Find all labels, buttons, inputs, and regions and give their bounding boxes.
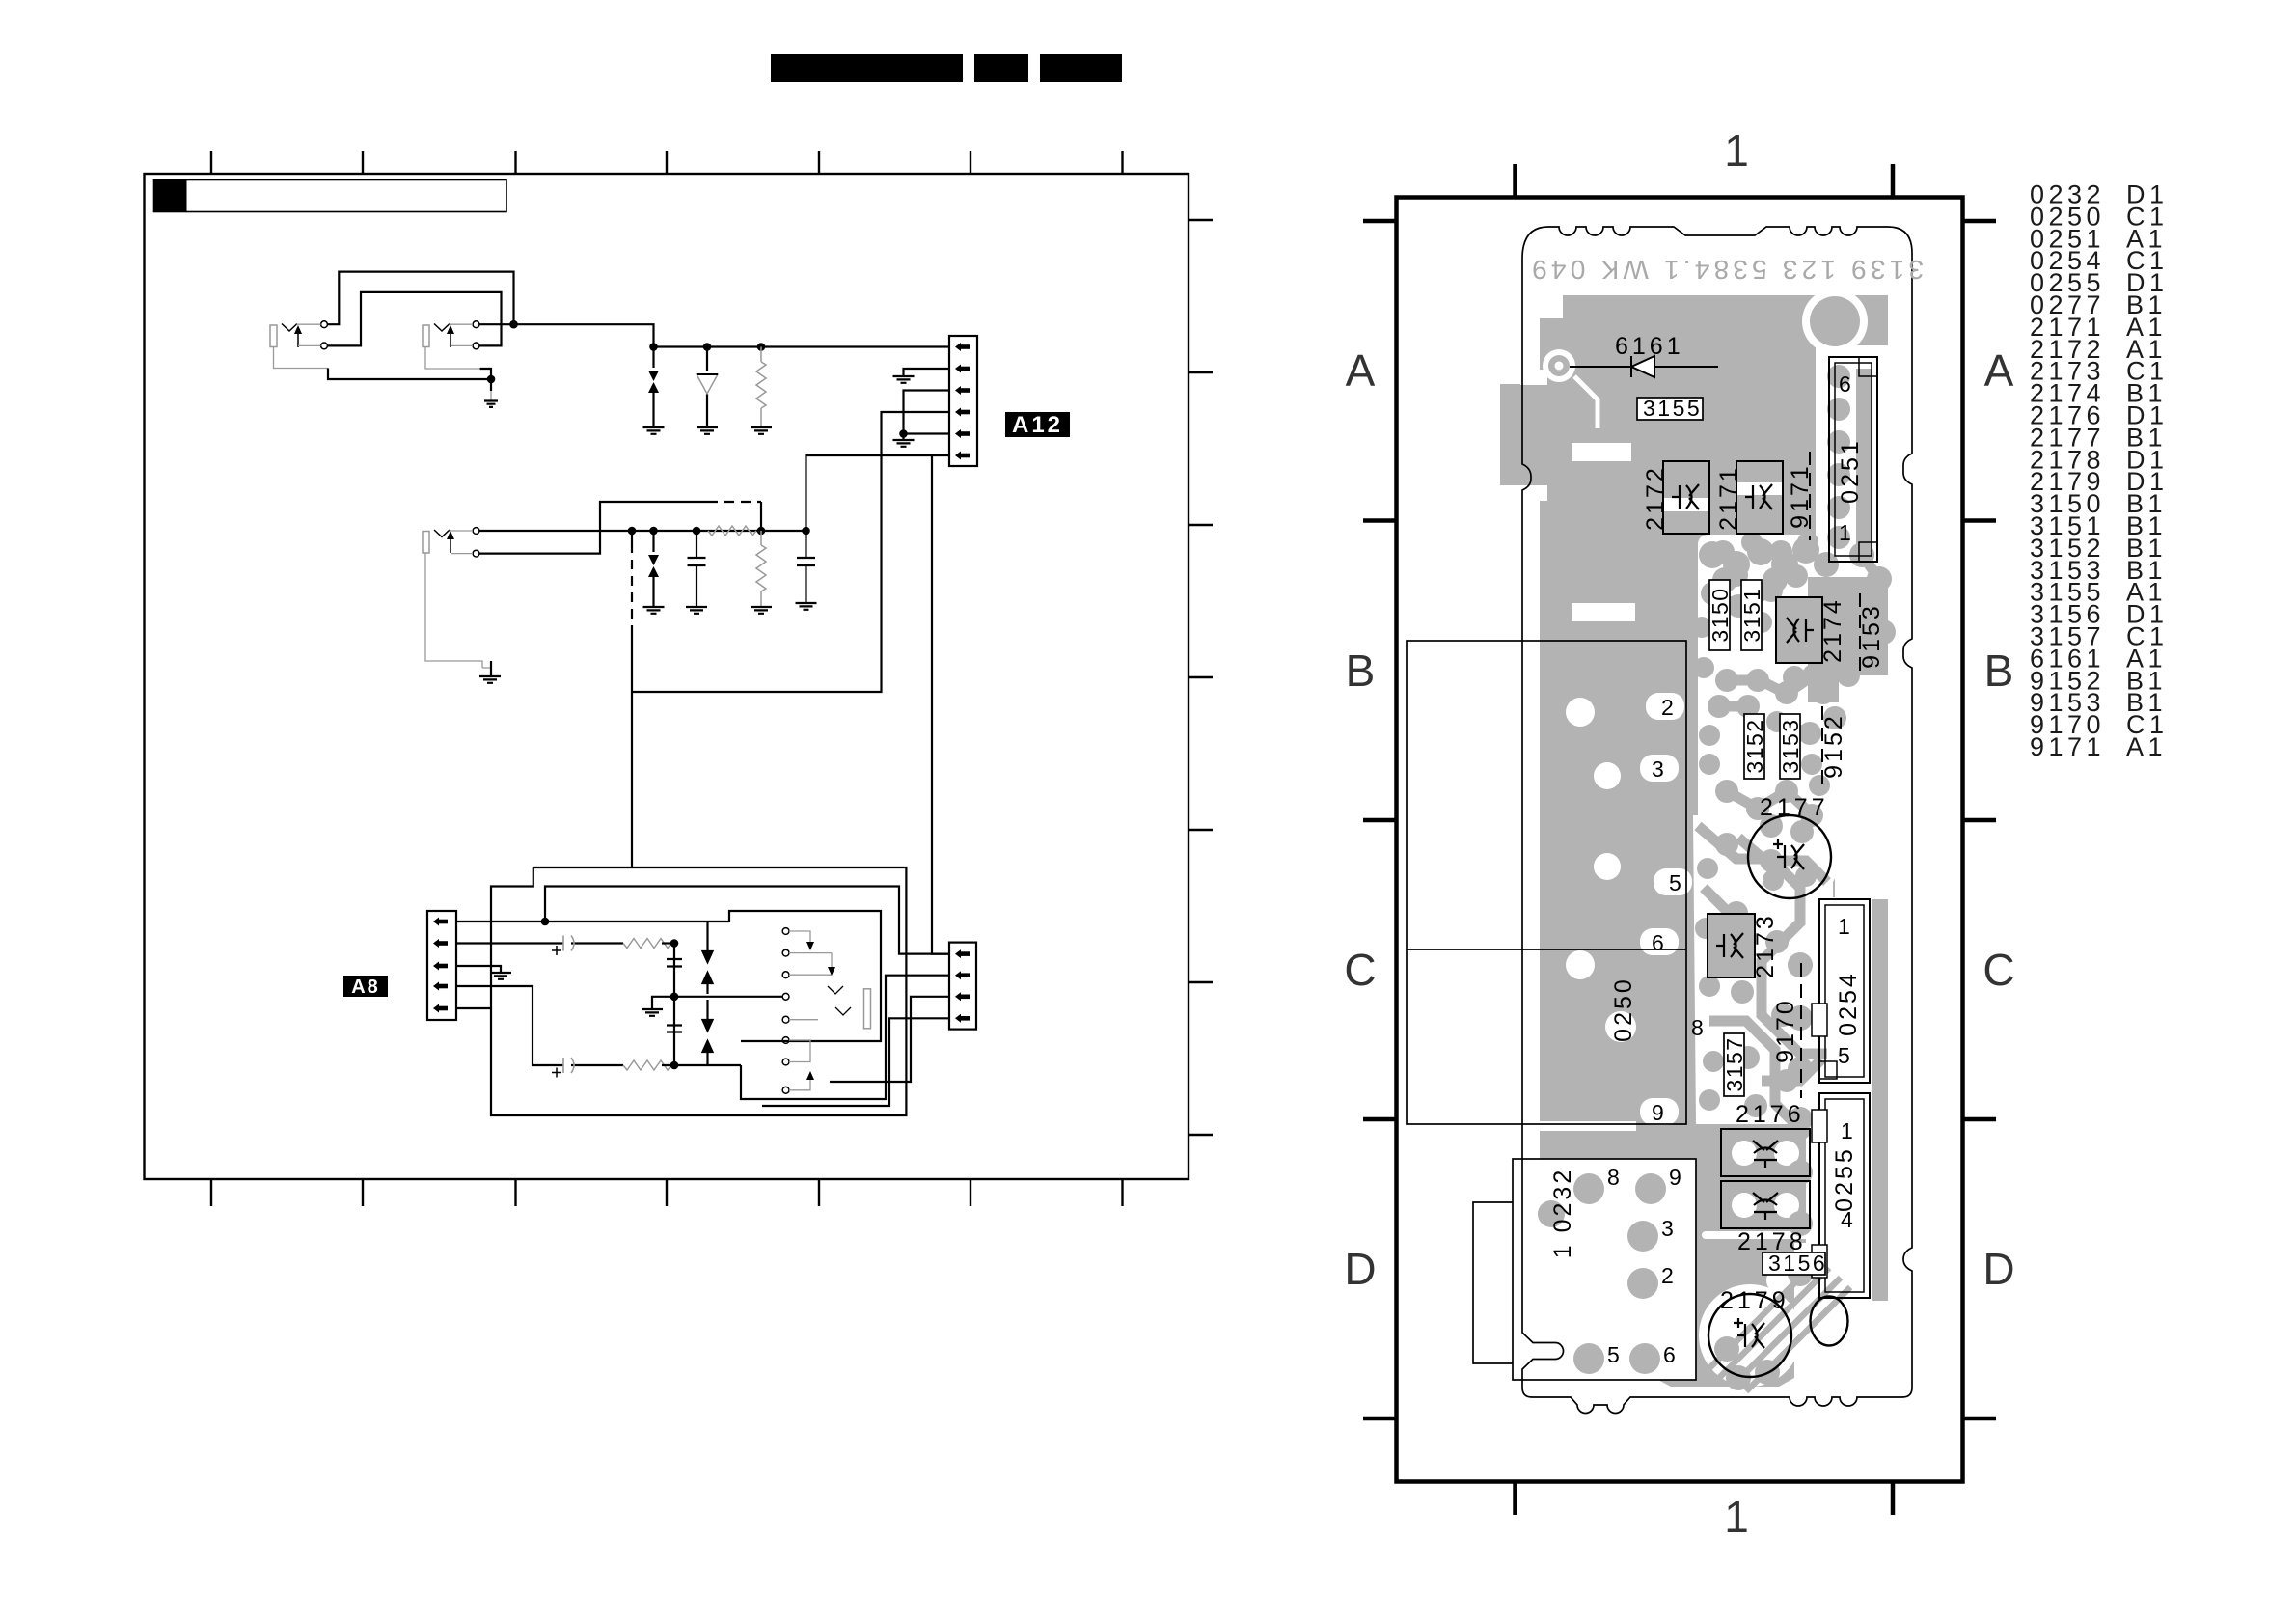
svg-text:3157: 3157 [1722,1036,1747,1091]
connector 0254 [1812,899,1870,1083]
svg-text:C: C [1982,945,2014,995]
svg-text:3156: 3156 [1768,1251,1827,1276]
title block [154,180,507,212]
capacitor 2171 [1736,461,1783,534]
left ticks [1363,221,1396,1418]
svg-text:D: D [1982,1244,2014,1294]
svg-text:2: 2 [1661,695,1674,720]
right jack sleeve [864,989,871,1029]
pads inside 2177/2179 [1763,869,1784,891]
moat around 0251 connector [1816,345,1912,577]
ground under zener [697,427,718,434]
wire link 9170 [1800,963,1802,1098]
resistor mid rail [708,526,756,536]
svg-text:4: 4 [1841,1207,1853,1232]
svg-text:A: A [1984,345,2014,396]
svg-text:2174: 2174 [1819,597,1846,663]
capacitor 2173 [1708,914,1755,977]
capacitor 2172 [1663,461,1709,534]
svg-text:5: 5 [1838,1043,1850,1068]
U link right [729,911,881,1041]
svg-text:3139 123 5384.1 WK 049: 3139 123 5384.1 WK 049 [1528,255,1924,285]
svg-text:3: 3 [1661,1216,1674,1241]
spark gaps column [703,922,713,962]
inner top rail [545,887,949,954]
right ticks [1963,221,1996,1418]
dots mid rail [628,527,637,536]
board outline [1522,227,1912,1414]
white cutouts in pour [1513,289,1912,1389]
svg-text:1 0232: 1 0232 [1549,1168,1576,1258]
pads column left of 0254/0255 [1788,952,1813,977]
svg-text:D: D [1344,1244,1376,1294]
ground under resistor [751,427,772,434]
svg-text:2179: 2179 [1720,1287,1790,1314]
outer loop [491,867,906,1115]
right jack V marks [828,986,851,1015]
moat around 0254/0255 [1806,897,1887,1301]
pin4 wire lower [456,986,563,1065]
wire link 9152 [1820,706,1847,785]
jack J2 sleeve [423,325,429,347]
jack J3 ring contact [473,550,479,557]
jack J1 ring contact [321,343,328,349]
grid letters [1344,125,2014,1542]
pads column in 0251 moat [1856,369,1872,550]
zener diode top [706,347,708,428]
svg-text:9: 9 [1669,1165,1681,1190]
gray hooks from circles [789,931,832,1090]
svg-text:5: 5 [1669,870,1681,895]
sleeve wire J1 [274,347,329,369]
mid wire to jack [674,996,782,998]
jack J2 arrow [450,330,451,347]
connector 0232 [1473,1159,1696,1380]
title bar 1 [771,54,963,82]
mid rail [479,530,806,532]
copper pour base [1500,295,1888,1387]
bottom ticks [211,1179,1123,1206]
resistor to gnd mid [756,531,766,607]
O ellipse [1811,1297,1848,1346]
svg-text:B: B [1346,646,1376,696]
pin2 wire w/ cap + resistor [456,942,563,944]
wire link 9171 [1809,452,1811,540]
A8 connector [427,911,456,1020]
svg-text:C: C [1344,945,1376,995]
A12 label [1005,412,1070,438]
pin numbers 0250 [1652,695,1704,1125]
svg-text:0255: 0255 [1831,1146,1858,1212]
svg-text:6161: 6161 [1615,333,1684,360]
right jack circles [782,928,789,1094]
svg-text:0254: 0254 [1835,971,1862,1036]
pin2 ground wire [893,369,950,383]
capacitor 2179 [1708,1294,1791,1377]
jack J1 sleeve [270,325,277,347]
resistor top [756,347,766,428]
slot mid 2 [1572,603,1635,621]
pin5 ground [893,434,915,447]
sheet frame [145,174,1189,1179]
slot left 2 [1520,485,1547,501]
svg-text:1: 1 [1724,125,1749,176]
white pocket central [1693,815,1833,1124]
ground J3 [479,676,501,683]
junction dots [509,320,518,329]
jack J3 internal gray stubs [450,531,474,554]
svg-text:0251: 0251 [1837,438,1864,504]
svg-text:2172: 2172 [1642,465,1669,531]
wire link 9153 [1859,593,1861,675]
title bar 3 [1040,54,1122,82]
connector A12 pins [955,343,970,460]
surge arrester mid [652,531,654,607]
connector 0250 [1407,641,1686,1124]
jack J1 tip contact [321,321,328,328]
J3 sleeve wire [425,554,482,668]
surge arrester top [652,347,654,428]
top ticks [1516,164,1894,197]
resistor 3156 [1763,1251,1827,1276]
ground under arrester [643,427,665,434]
resistor [623,939,671,949]
svg-text:1: 1 [1839,520,1851,545]
jack J3 contact V [434,530,450,537]
svg-text:A12: A12 [1012,412,1063,438]
sleeve wire J2 [425,347,480,370]
center ground [642,997,674,1016]
jack J1 arrow [297,330,299,347]
svg-text:6: 6 [1652,930,1664,955]
wire rail top [479,324,949,346]
svg-text:2176: 2176 [1736,1101,1805,1128]
white pocket under 2171 [1698,535,1839,839]
svg-text:5: 5 [1607,1342,1620,1367]
svg-text:9153: 9153 [1858,603,1885,669]
right ticks [1189,220,1213,1135]
caps on column [667,959,682,1032]
diode pad ring [1543,349,1598,428]
capacitor 2178 [1721,1181,1810,1228]
slot left 1 [1520,370,1547,385]
gray pads / traces over white [1538,296,1888,1390]
svg-text:A1: A1 [2126,732,2167,761]
svg-text:9171: 9171 [1787,463,1814,529]
pin numbers 0232 [1607,1165,1681,1367]
moat around 2177 [1739,807,1840,907]
svg-text:9171: 9171 [2030,732,2105,761]
frame [1397,198,1963,1482]
pads in 0250 [1646,693,1684,720]
connector 0255 [1812,1093,1870,1298]
wire inner loop J1 ring to J2 ring [327,292,501,346]
circle moat top right [1802,289,1868,354]
capacitor 2177 [1748,815,1831,898]
svg-text:9152: 9152 [1820,713,1847,779]
pin5 wire [456,1007,491,1009]
right connector [949,943,976,1030]
svg-text:6: 6 [1663,1342,1676,1367]
svg-text:A8: A8 [351,977,380,998]
cap mid [688,531,706,607]
svg-text:8: 8 [1691,1015,1704,1040]
jack J2 tip contact [473,321,479,328]
0232 interior [1513,1159,1696,1380]
svg-text:3155: 3155 [1643,396,1702,421]
svg-text:2: 2 [1661,1263,1674,1288]
capacitor 2174 [1776,597,1822,663]
svg-text:1: 1 [1838,914,1850,939]
resistor 3157 [1722,1033,1747,1096]
center column [673,944,675,1066]
0232 pads [1573,1173,1604,1204]
small arrows right jack [806,942,835,1080]
electrolytic capacitor [563,936,574,951]
long vertical right [932,455,949,954]
resistor 3150 [1708,580,1733,650]
connector 0251 [1829,357,1877,562]
svg-text:2177: 2177 [1760,794,1829,821]
svg-text:3150: 3150 [1708,587,1733,642]
svg-text:9: 9 [1652,1100,1664,1125]
resistor 3155 [1637,396,1703,421]
A8 label [343,976,388,998]
resistor 3152 [1742,714,1767,779]
svg-text:1: 1 [1841,1118,1853,1143]
jack J3 tip contact [473,528,479,535]
jack J2 ring contact [473,343,479,349]
dashed dropper [631,531,633,543]
top ticks [211,151,1123,174]
svg-text:0250: 0250 [1610,977,1637,1042]
channels around 2176/2178 [1702,1115,1829,1123]
right connector wires [741,976,949,1099]
jack J3 sleeve [423,532,429,554]
slot mid 1 [1572,443,1631,461]
jack J3 arrow [450,536,451,553]
sleeve ground wires [328,369,491,380]
cap under pin6 node [797,531,815,603]
svg-text:3152: 3152 [1742,718,1767,773]
pin4 long wire down [632,412,949,692]
jack internal gray stubs [297,324,474,345]
moat around 2179 [1699,1284,1801,1387]
svg-text:A: A [1346,345,1376,396]
pin6 wire to mid rail [806,455,950,531]
jack J1 contact V [282,324,297,332]
diode 6161 [1570,356,1718,377]
jack J2 contact V [434,324,450,332]
svg-text:B: B [1984,646,2014,696]
pin3-pin5 tie [904,391,950,434]
svg-text:3151: 3151 [1739,587,1764,642]
bottom ticks [1516,1482,1894,1515]
wire outer loop J1 tip to J2 tip [327,272,513,325]
svg-text:2171: 2171 [1715,465,1742,531]
svg-text:3: 3 [1652,756,1664,782]
title bar 2 [974,54,1028,82]
gray snaking traces in central white pocket [1698,555,1883,1391]
svg-text:6: 6 [1839,371,1851,397]
ground top block [490,379,492,391]
pin1 rail [456,921,729,922]
svg-text:2173: 2173 [1752,913,1779,978]
resistor 3151 [1739,580,1764,650]
capacitor 2176 [1721,1129,1810,1176]
svg-text:8: 8 [1607,1165,1620,1190]
svg-text:1: 1 [1724,1492,1749,1542]
resistor 3153 [1778,714,1803,779]
svg-text:9170: 9170 [1772,998,1799,1063]
pin3 ground [456,966,511,979]
svg-text:3153: 3153 [1778,718,1803,773]
ring wire to bypass [479,502,708,554]
